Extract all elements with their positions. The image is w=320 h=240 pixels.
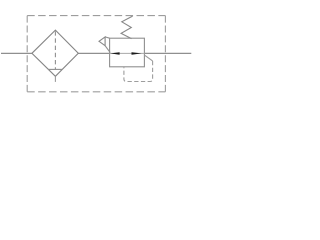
- enclosure dashed border top edge: [27, 15, 165, 17]
- regulator R1 right arrowhead: [132, 52, 142, 55]
- regulator R1 left arrowhead: [110, 52, 119, 55]
- enclosure dashed border right edge: [164, 16, 166, 92]
- wire: vent triangle top link to box corner: [105, 37, 110, 38]
- enclosure dashed border bottom edge: [27, 91, 165, 93]
- filter F1 drain stub: [54, 76, 56, 82]
- wire: regulator pilot sensing loop (dashed, rounded corners): [124, 61, 153, 82]
- regulator R1 body (square): [110, 38, 145, 67]
- filter F1 element (dashed center line): [54, 31, 56, 69]
- wire: outlet line: [144, 52, 191, 54]
- regulator R1 relief vent triangle: [99, 37, 105, 46]
- wire: inlet line: [1, 52, 32, 54]
- wire: line between filter and regulator: [78, 52, 109, 54]
- filter F1 body (diamond): [32, 30, 78, 76]
- regulator R1 flow path line: [110, 52, 145, 54]
- filter F1 water-trap chord: [48, 68, 63, 70]
- wire: regulator pilot diagonal from box right edge: [144, 55, 152, 61]
- enclosure dashed border left edge: [26, 16, 28, 92]
- regulator R1 adjustment spring: [121, 16, 133, 38]
- wire: vent triangle lower link to box edge: [105, 46, 110, 53]
